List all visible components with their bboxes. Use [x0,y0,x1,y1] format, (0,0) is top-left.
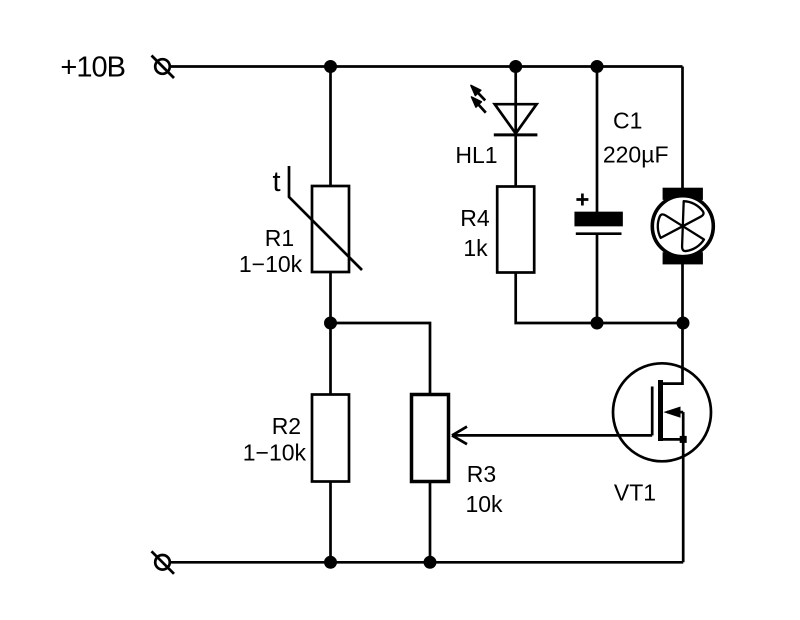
svg-text:C1: C1 [613,108,642,134]
svg-text:1k: 1k [463,235,488,261]
svg-text:R4: R4 [460,205,490,231]
svg-text:220µF: 220µF [603,141,669,167]
svg-text:10k: 10k [465,491,503,517]
svg-text:R2: R2 [272,413,301,439]
svg-text:R3: R3 [467,461,496,487]
svg-text:VT1: VT1 [614,480,656,506]
svg-text:+10В: +10В [60,52,125,84]
svg-text:1−10k: 1−10k [243,439,307,465]
svg-text:R1: R1 [265,225,294,251]
svg-text:HL1: HL1 [455,142,497,168]
svg-text:t: t [272,166,280,198]
svg-text:1−10k: 1−10k [239,251,303,277]
